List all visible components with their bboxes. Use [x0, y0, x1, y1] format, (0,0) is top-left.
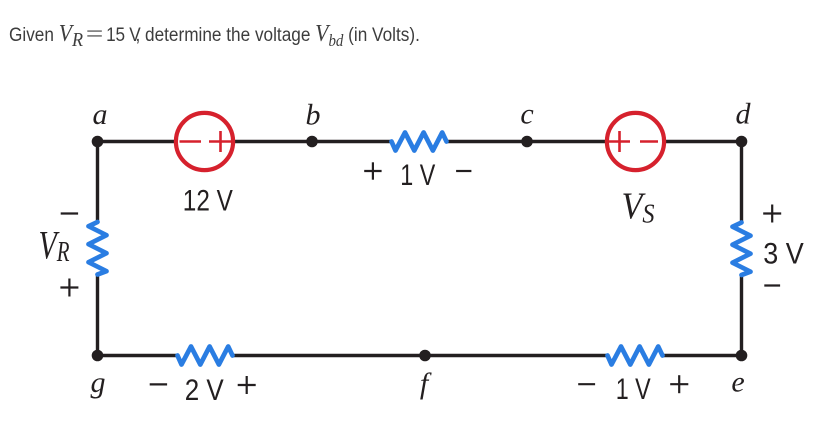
- polarity plus (3V top): [763, 212, 781, 214]
- node g: [92, 350, 104, 362]
- resistor top 1V: [392, 133, 447, 151]
- polarity minus (top 1V right): [456, 170, 471, 172]
- svg-text:g: g: [91, 366, 106, 399]
- wire bottom R1V-to-e: [663, 354, 742, 357]
- polarity minus (3V bottom): [764, 284, 780, 286]
- 12V source minus sign: [180, 140, 202, 143]
- title text: [9, 21, 420, 48]
- polarity minus (2V left): [150, 383, 167, 385]
- polarity plus (2V right): [238, 384, 256, 386]
- resistor left VR: [89, 222, 107, 275]
- voltage source 12V circle: [176, 113, 233, 170]
- svg-text:a: a: [93, 98, 108, 131]
- wire top a-to-resistor: [98, 140, 392, 143]
- polarity plus (VR bottom): [60, 286, 78, 288]
- svg-text:e: e: [731, 366, 744, 399]
- VS source minus sign: [640, 140, 658, 143]
- VS source plus sign: [609, 131, 630, 152]
- svg-text:c: c: [520, 98, 533, 131]
- wire right lower R3-to-e: [740, 275, 743, 357]
- svg-text:VR: VR: [39, 222, 70, 268]
- svg-text:12 V: 12 V: [183, 185, 233, 218]
- svg-text:d: d: [736, 98, 752, 131]
- node c: [521, 136, 533, 148]
- svg-text:b: b: [306, 99, 321, 132]
- wire left upper a-to-VR: [96, 140, 99, 222]
- svg-text:f: f: [420, 367, 432, 400]
- wire left lower VR-to-g: [96, 275, 99, 358]
- wire bottom g-to-R2V: [98, 354, 178, 357]
- voltage source VS circle: [607, 113, 664, 170]
- polarity minus (bottom 1V left): [578, 383, 595, 385]
- node a: [92, 136, 104, 148]
- wire bottom R2V-to-R1V: [233, 354, 608, 357]
- resistor bottom 1V: [608, 347, 663, 365]
- wire top resistor-to-d: [447, 140, 742, 143]
- polarity plus (bottom 1V right): [670, 383, 688, 385]
- resistor bottom 2V: [178, 347, 233, 365]
- resistor right 3V: [733, 223, 751, 276]
- svg-text:1 V: 1 V: [400, 159, 435, 192]
- svg-text:2 V: 2 V: [185, 374, 224, 407]
- node f: [419, 350, 431, 362]
- svg-text:VS: VS: [622, 185, 655, 228]
- 12V source plus sign: [209, 131, 232, 152]
- svg-text:3 V: 3 V: [763, 238, 804, 271]
- node e: [736, 350, 748, 362]
- polarity plus (top 1V left): [364, 170, 381, 172]
- node b: [306, 136, 318, 148]
- polarity minus (VR top): [61, 212, 78, 214]
- svg-text:1 V: 1 V: [616, 373, 651, 406]
- wire right upper d-to-R3: [740, 140, 743, 223]
- node d: [736, 136, 748, 148]
